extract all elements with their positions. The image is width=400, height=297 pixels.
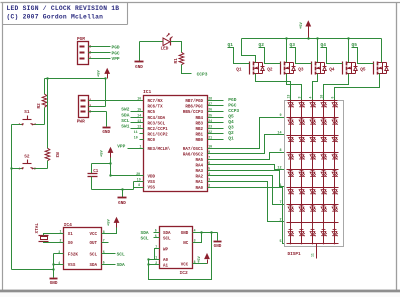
- svg-text:12: 12: [277, 166, 281, 170]
- svg-text:8: 8: [138, 183, 140, 187]
- svg-text:LED: LED: [161, 47, 169, 52]
- svg-text:RB2: RB2: [195, 128, 203, 132]
- svg-text:VSS: VSS: [68, 264, 76, 268]
- svg-text:+5V: +5V: [198, 255, 202, 263]
- svg-text:RB1: RB1: [195, 133, 203, 137]
- svg-text:SDA: SDA: [121, 112, 129, 118]
- svg-text:RC5: RC5: [148, 111, 156, 115]
- svg-text:R3: R3: [54, 152, 59, 158]
- svg-text:1: 1: [140, 144, 142, 148]
- svg-text:26: 26: [208, 108, 212, 112]
- svg-text:Q4: Q4: [321, 42, 327, 48]
- svg-text:SDA: SDA: [163, 232, 171, 236]
- svg-text:PGD: PGD: [112, 45, 120, 51]
- svg-text:Q2: Q2: [228, 130, 234, 136]
- svg-text:RB6/PGC: RB6/PGC: [185, 105, 203, 110]
- svg-text:Q3: Q3: [228, 125, 234, 131]
- svg-text:1: 1: [60, 230, 62, 234]
- svg-text:SW1: SW1: [121, 123, 129, 129]
- svg-text:7: 7: [155, 245, 157, 249]
- svg-text:2: 2: [279, 219, 281, 223]
- svg-text:A0: A0: [163, 259, 169, 263]
- svg-text:15: 15: [137, 108, 141, 112]
- svg-text:4: 4: [58, 261, 60, 265]
- svg-text:SCL: SCL: [163, 237, 171, 241]
- svg-text:21: 21: [208, 135, 212, 139]
- svg-text:RC7/RX: RC7/RX: [148, 99, 164, 104]
- svg-text:RC1/CCP2: RC1/CCP2: [148, 132, 169, 137]
- svg-text:10: 10: [134, 135, 138, 139]
- svg-text:19: 19: [137, 178, 141, 182]
- svg-text:SCL: SCL: [121, 118, 129, 124]
- svg-text:3: 3: [298, 97, 302, 99]
- svg-text:8: 8: [103, 230, 105, 234]
- svg-text:F32K: F32K: [68, 254, 79, 258]
- svg-text:RC4/SDA: RC4/SDA: [148, 116, 166, 121]
- svg-text:LED SIGN / CLOCK REVISION 1B: LED SIGN / CLOCK REVISION 1B: [7, 5, 120, 12]
- svg-text:PGC: PGC: [112, 51, 120, 57]
- svg-text:20: 20: [136, 172, 140, 176]
- svg-text:C1: C1: [93, 170, 99, 174]
- svg-text:RC2/CCP1: RC2/CCP1: [148, 127, 169, 132]
- svg-text:RA7/OSC1: RA7/OSC1: [183, 147, 204, 152]
- svg-text:1: 1: [155, 256, 157, 260]
- svg-text:8: 8: [194, 260, 196, 264]
- svg-text:+5V: +5V: [108, 218, 112, 226]
- svg-text:2: 2: [34, 167, 36, 170]
- svg-text:A1: A1: [163, 264, 169, 268]
- svg-text:5: 5: [103, 261, 105, 265]
- svg-text:OUT: OUT: [89, 242, 97, 246]
- svg-text:13: 13: [137, 119, 141, 123]
- svg-text:VSS: VSS: [148, 181, 156, 185]
- svg-text:RA4: RA4: [195, 165, 203, 169]
- svg-text:SDA: SDA: [141, 230, 149, 236]
- svg-text:RB5/CCP3: RB5/CCP3: [183, 110, 204, 115]
- svg-text:Q5: Q5: [360, 68, 366, 73]
- svg-text:2: 2: [208, 183, 210, 187]
- svg-text:RA6/OSC2: RA6/OSC2: [183, 152, 204, 157]
- svg-text:Q2: Q2: [267, 68, 273, 73]
- svg-text:Q5: Q5: [352, 42, 358, 48]
- svg-text:SCL: SCL: [117, 251, 125, 257]
- svg-text:SCL: SCL: [89, 254, 97, 258]
- svg-text:RB3: RB3: [195, 122, 203, 126]
- svg-text:4: 4: [208, 172, 210, 176]
- svg-text:6: 6: [103, 250, 105, 254]
- svg-text:RA5: RA5: [195, 159, 203, 163]
- svg-text:CCP3: CCP3: [228, 108, 239, 114]
- svg-text:XTAL: XTAL: [35, 223, 40, 234]
- svg-text:GND: GND: [214, 244, 222, 249]
- svg-text:VPP: VPP: [117, 143, 125, 149]
- svg-text:CCP3: CCP3: [197, 71, 208, 77]
- svg-text:NC: NC: [183, 242, 189, 246]
- svg-text:2: 2: [60, 238, 62, 242]
- svg-text:Q5: Q5: [228, 113, 234, 119]
- svg-text:Q2: Q2: [259, 42, 265, 48]
- svg-text:SCL: SCL: [141, 235, 149, 241]
- svg-text:23: 23: [208, 124, 212, 128]
- svg-text:Q1: Q1: [228, 42, 234, 48]
- svg-text:RA3: RA3: [195, 170, 203, 174]
- svg-text:GND: GND: [135, 65, 143, 70]
- svg-text:11: 11: [311, 253, 315, 257]
- svg-text:8: 8: [279, 149, 281, 153]
- svg-text:WP: WP: [163, 248, 169, 252]
- svg-text:11: 11: [134, 130, 138, 134]
- svg-text:16: 16: [137, 97, 141, 101]
- svg-text:1: 1: [89, 56, 91, 60]
- svg-text:2: 2: [89, 104, 91, 108]
- svg-text:+5V: +5V: [101, 149, 105, 157]
- svg-text:12: 12: [137, 124, 141, 128]
- svg-text:9: 9: [208, 150, 210, 154]
- svg-text:RA2: RA2: [195, 176, 203, 180]
- svg-text:R2: R2: [37, 103, 42, 109]
- svg-text:10: 10: [320, 95, 324, 99]
- svg-text:3: 3: [194, 239, 196, 243]
- svg-text:13: 13: [287, 95, 291, 99]
- svg-text:Q1: Q1: [228, 136, 234, 142]
- svg-text:6: 6: [155, 234, 157, 238]
- svg-text:5: 5: [155, 229, 157, 233]
- svg-text:4: 4: [309, 97, 313, 99]
- svg-text:RB0: RB0: [195, 139, 203, 143]
- svg-text:3: 3: [208, 178, 210, 182]
- svg-text:IC1: IC1: [143, 89, 152, 95]
- svg-text:2: 2: [155, 261, 157, 265]
- svg-text:SDA: SDA: [117, 262, 125, 268]
- svg-text:SDA: SDA: [89, 264, 97, 268]
- svg-text:IC2: IC2: [180, 270, 189, 276]
- svg-text:S2: S2: [24, 154, 30, 159]
- svg-text:14: 14: [277, 132, 281, 136]
- svg-text:2: 2: [34, 123, 36, 126]
- svg-text:Q1: Q1: [236, 68, 242, 73]
- svg-text:VSS: VSS: [148, 187, 156, 191]
- svg-text:Q4: Q4: [329, 68, 335, 73]
- svg-text:GND: GND: [181, 232, 189, 236]
- svg-text:14: 14: [137, 113, 141, 117]
- svg-text:VCC: VCC: [89, 233, 97, 237]
- svg-text:+5V: +5V: [97, 69, 101, 77]
- svg-text:3: 3: [58, 250, 60, 254]
- svg-text:Q3: Q3: [290, 42, 296, 48]
- svg-text:GND: GND: [102, 130, 110, 135]
- svg-text:GND: GND: [118, 201, 126, 206]
- svg-text:VCC: VCC: [181, 263, 189, 267]
- svg-text:RB7/PGD: RB7/PGD: [185, 99, 203, 104]
- svg-text:RE3/MCLR\: RE3/MCLR\: [148, 147, 171, 152]
- svg-text:5: 5: [279, 240, 281, 244]
- svg-text:PGD: PGD: [228, 97, 236, 103]
- svg-text:RC3/SCL: RC3/SCL: [148, 121, 166, 126]
- svg-text:6: 6: [331, 97, 335, 99]
- svg-text:+5V: +5V: [300, 21, 304, 29]
- svg-text:RC6/TX: RC6/TX: [148, 105, 164, 110]
- svg-text:24: 24: [208, 119, 212, 123]
- svg-text:4: 4: [194, 229, 196, 233]
- svg-text:28: 28: [208, 97, 212, 101]
- svg-text:GND: GND: [50, 281, 58, 286]
- svg-text:5: 5: [208, 167, 210, 171]
- svg-text:10: 10: [208, 144, 212, 148]
- svg-text:6: 6: [208, 161, 210, 165]
- svg-text:SW2: SW2: [121, 107, 129, 113]
- svg-text:Q3: Q3: [298, 68, 304, 73]
- svg-text:DISP1: DISP1: [288, 252, 302, 257]
- svg-text:22: 22: [208, 130, 212, 134]
- svg-text:RA0: RA0: [195, 187, 203, 191]
- svg-text:7: 7: [208, 156, 210, 160]
- svg-text:X0: X0: [68, 242, 74, 246]
- svg-text:7: 7: [279, 201, 281, 205]
- svg-text:X1: X1: [68, 233, 74, 237]
- svg-text:RA1: RA1: [195, 181, 203, 185]
- svg-text:Q4: Q4: [228, 119, 234, 125]
- svg-text:(C) 2007 Gordon McLellan: (C) 2007 Gordon McLellan: [7, 14, 104, 21]
- svg-text:27: 27: [208, 102, 212, 106]
- svg-text:VPP: VPP: [112, 56, 120, 62]
- svg-text:RB4: RB4: [195, 117, 203, 121]
- svg-text:25: 25: [208, 113, 212, 117]
- svg-text:R1: R1: [174, 58, 179, 64]
- svg-text:S1: S1: [24, 110, 30, 115]
- svg-text:7: 7: [103, 239, 105, 243]
- svg-text:PWR: PWR: [77, 119, 85, 124]
- svg-text:RC0: RC0: [148, 139, 156, 143]
- svg-text:9: 9: [279, 114, 281, 118]
- svg-text:VDD: VDD: [148, 176, 156, 180]
- svg-text:PGC: PGC: [228, 102, 236, 108]
